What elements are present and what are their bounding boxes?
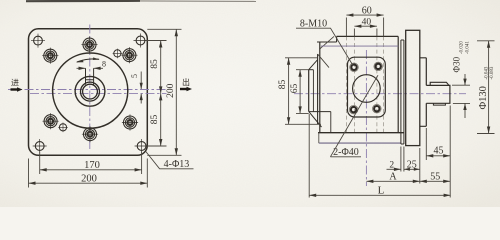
ext plate top edge right: [147, 28, 181, 30]
dim line 200 bottom: [29, 182, 148, 184]
bolt hole top-left: [31, 34, 45, 48]
outlet arrow: [180, 88, 188, 90]
port boss pad face: [308, 70, 310, 112]
centerline H1 (port axis): [8, 89, 166, 91]
svg-text:8: 8: [102, 60, 106, 69]
boss bottom chamfer: [309, 112, 322, 127]
dim 8 keyway width: [77, 67, 104, 69]
M10 hole top-center: [81, 37, 97, 53]
pad bottom inner vertical: [330, 112, 332, 133]
bolt hole bottom-right: [135, 139, 149, 153]
dim 5 offset: [140, 72, 142, 104]
ext lines Φ30: [452, 85, 470, 103]
svg-text:5: 5: [130, 74, 139, 78]
dim line 85 left: [288, 58, 290, 125]
ext lines dim 40: [354, 29, 377, 37]
dim line Φ30 upper: [464, 74, 466, 85]
svg-text:-0.083: -0.083: [490, 66, 495, 79]
ext lines dim 85 left: [285, 58, 321, 125]
shaft outer circle: [75, 76, 105, 106]
ext lines dim 60: [346, 18, 383, 37]
svg-text:60: 60: [362, 5, 372, 16]
keyway slot: [86, 68, 94, 84]
ext line top bolt row right: [146, 40, 167, 42]
svg-text:2: 2: [389, 161, 394, 171]
centerline H2 (shaft axis): [30, 92, 167, 94]
svg-text:Φ130: Φ130: [478, 86, 489, 109]
bolt hole top-right: [134, 34, 148, 48]
dim line L: [309, 194, 450, 196]
centerline horizontal right view: [294, 93, 466, 95]
svg-text:25: 25: [407, 160, 417, 171]
ext lines Φ130: [477, 41, 495, 134]
dim line 200 vertical: [175, 29, 177, 155]
scan smudge top edge: [26, 0, 140, 2]
centerline vertical port axis: [365, 50, 367, 186]
label Φ30 with tolerance: [452, 41, 471, 73]
dim line 25: [404, 168, 420, 170]
pad top edge: [309, 69, 314, 71]
M10 hole lower-left: [43, 113, 59, 129]
hidden bore line b: [353, 36, 355, 132]
body right edge: [397, 36, 399, 132]
leader 8-M10: [296, 28, 353, 65]
dim line 55: [420, 180, 450, 182]
body circle: [53, 53, 128, 128]
svg-text:4-Φ13: 4-Φ13: [164, 159, 190, 170]
ext lines dim 65 left: [296, 70, 309, 114]
svg-text:Φ30: Φ30: [452, 56, 462, 72]
svg-text:40: 40: [362, 17, 372, 27]
dim line 45: [426, 155, 450, 157]
M10 hole upper-right: [121, 47, 137, 63]
face screw hole top-right: [374, 62, 383, 71]
bolt hole bottom-left: [33, 139, 47, 153]
dowel pin hole upper-right: [113, 49, 123, 59]
leader 4-Φ13: [146, 152, 194, 169]
inlet arrow: [11, 88, 19, 90]
rotation direction arrow: [77, 59, 99, 62]
svg-text:85: 85: [150, 59, 160, 69]
body lower left vertical: [318, 133, 320, 143]
boss top chamfer: [309, 60, 318, 70]
dim line Φ130: [488, 41, 490, 134]
svg-text:45: 45: [434, 145, 444, 156]
ext plate left edge down: [28, 159, 30, 188]
dim line 40: [354, 25, 377, 27]
flange plate outline: [29, 29, 148, 156]
M10 hole lower-right: [122, 114, 138, 130]
dim line 85/85: [160, 41, 162, 147]
boss base vertical: [317, 54, 319, 125]
svg-text:85: 85: [150, 115, 160, 125]
ext lines dims 2 and 25: [401, 147, 420, 184]
shaft body: [426, 85, 450, 103]
svg-text:A: A: [389, 172, 397, 183]
dowel pin hole lower-left: [58, 123, 68, 133]
svg-text:-0.041: -0.041: [465, 41, 470, 54]
svg-text:8-M10: 8-M10: [300, 19, 327, 30]
top step vertical: [336, 36, 338, 42]
svg-text:200: 200: [166, 83, 176, 98]
dim line 60: [346, 14, 383, 16]
gasket plate: [401, 40, 404, 144]
boss gusset diagonal: [318, 54, 329, 68]
svg-text:200: 200: [81, 173, 97, 184]
svg-text:170: 170: [84, 160, 100, 171]
svg-text:85: 85: [278, 80, 288, 90]
svg-text:-0.020: -0.020: [460, 41, 465, 54]
vertical centerline: [89, 25, 91, 151]
body bottom edge: [318, 132, 404, 134]
ext line L left: [308, 114, 310, 198]
pad inner vertical: [312, 70, 314, 112]
dim line 2: [387, 168, 401, 170]
spigot cylinder: [420, 58, 427, 127]
svg-text:2-Φ40: 2-Φ40: [333, 147, 359, 158]
svg-text:55: 55: [430, 172, 440, 183]
shaft key top: [430, 82, 449, 85]
mounting flange: [406, 30, 420, 145]
ext line bolt bottom-left down: [39, 152, 41, 175]
pad bottom edge long: [309, 111, 331, 113]
svg-text:L: L: [378, 185, 385, 197]
ext plate right edge down: [146, 159, 148, 188]
shaft bore circle inner: [83, 84, 98, 99]
hidden bore line d: [383, 36, 385, 132]
M10 hole bottom-center: [82, 126, 98, 142]
face screw hole bottom-left: [349, 105, 358, 114]
dim line A: [366, 180, 419, 182]
inner horizontal line upper: [321, 45, 398, 47]
face screw hole bottom-right: [373, 104, 382, 113]
face screw hole top-left: [350, 63, 359, 72]
dim line 170: [40, 169, 142, 171]
cover front face: [319, 42, 321, 133]
body top edge: [337, 35, 399, 37]
label Φ130 with tolerance: [478, 66, 495, 109]
svg-text:出: 出: [182, 77, 190, 87]
leader 2-Φ40: [330, 75, 378, 157]
M10 hole upper-left: [42, 48, 58, 64]
dim line Φ30 lower: [464, 103, 466, 118]
ext line bolt bottom-right down: [141, 152, 143, 175]
svg-text:-0.043: -0.043: [485, 66, 490, 79]
ext line L right: [449, 160, 451, 198]
ext lines dim 45: [426, 106, 450, 161]
shaft bottom notch: [433, 103, 445, 105]
ext plate bottom edge right: [147, 154, 181, 156]
face square rounded: [348, 57, 386, 117]
svg-text:65: 65: [290, 84, 300, 94]
svg-text:进: 进: [11, 79, 19, 88]
port circle Φ40: [353, 75, 381, 103]
body lower line: [319, 142, 401, 144]
dim line 65 left: [299, 70, 301, 114]
cover top edge: [317, 41, 337, 43]
hidden bore line c: [376, 36, 378, 132]
hidden bore line a: [345, 36, 347, 132]
ext line bottom bolt row right: [147, 145, 167, 147]
shaft bore circle outer: [81, 82, 100, 101]
cover top chamfer diagonal: [320, 36, 335, 49]
